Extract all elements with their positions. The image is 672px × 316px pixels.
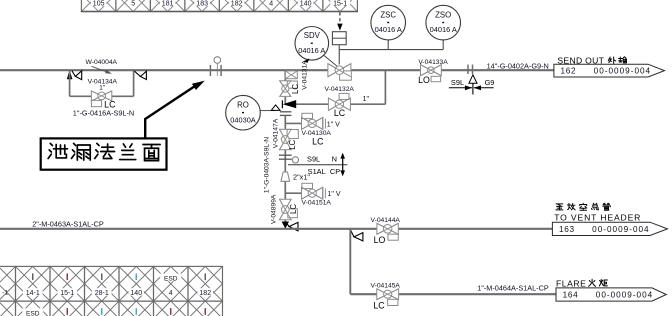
svg-text:V-04131A: V-04131A (301, 60, 308, 90)
svg-text:182: 182 (231, 0, 243, 7)
shutdown valve V-04131A (SDV-04016) (328, 64, 351, 77)
vent valve V-04130A (302, 117, 323, 129)
svg-text:00-0009-004: 00-0009-004 (596, 291, 653, 300)
svg-text:04016 A: 04016 A (375, 25, 402, 34)
off-page arrow 162 send out (554, 64, 665, 77)
svg-text:00-0009-004: 00-0009-004 (592, 225, 649, 234)
main pipe line (14in send out) (0, 69, 554, 71)
svg-text:15-1: 15-1 (333, 0, 347, 7)
connector grid r1c2 14-1 (16, 266, 51, 301)
leader RO to orifice flange (260, 110, 275, 112)
drain circle (292, 157, 298, 163)
vent end flanges of V-04130A (322, 119, 324, 129)
gate valve V-04144A (LO) (377, 223, 398, 234)
svg-text:1"-G-0416A-S9L-N: 1"-G-0416A-S9L-N (73, 108, 134, 117)
svg-text:LC: LC (288, 139, 297, 149)
spec break line S9L/S1AL (288, 164, 347, 166)
label 至放空总管 (to vent header) (556, 204, 563, 210)
position switch ZSO 04016 A (426, 5, 461, 40)
svg-text:LC: LC (312, 136, 324, 146)
off-page arrow 163 vent header (552, 222, 667, 235)
svg-text:183: 183 (196, 0, 208, 7)
flag symbol right of bypass (134, 71, 140, 77)
svg-text:00-0009-004: 00-0009-004 (594, 67, 651, 76)
leak flange vent stem (216, 63, 218, 76)
svg-text:LC: LC (334, 108, 346, 118)
svg-text:140: 140 (130, 290, 142, 297)
svg-text:LC: LC (373, 301, 385, 311)
svg-text:-1: -1 (2, 290, 8, 297)
bypass loop left leg (69, 70, 71, 96)
gate valve V-04145A (LC) (377, 289, 399, 300)
gate valve V-04133A (LO) (421, 65, 442, 76)
hand valve V-04147A (vertical) (280, 129, 292, 149)
svg-text:ESD: ESD (26, 310, 40, 316)
connector grid r2c6 (154, 301, 189, 316)
shutdown valve tag SDV 04016 A (295, 27, 329, 61)
off-page arrow 164 flare (556, 288, 666, 301)
vent valve V-04151A (302, 187, 323, 199)
2in header pipe (0, 228, 554, 230)
callout box (leak flange face) (41, 138, 167, 169)
off-page connector cell 4 (top row) (254, 0, 289, 12)
svg-text:ZSO: ZSO (435, 10, 451, 19)
flare pipe (350, 293, 556, 295)
connector grid r2c4 (85, 301, 120, 316)
flow arrow up into main line (67, 70, 73, 79)
connector grid r1c3 15-1 (50, 266, 85, 301)
bypass loop right leg (133, 70, 135, 96)
svg-text:1"-G-0403A-S9L-N: 1"-G-0403A-S9L-N (263, 137, 270, 193)
position switch ZSC 04016 A (371, 5, 406, 40)
1in bypass pipe (lower) (285, 103, 385, 105)
leader W-04004A to main line (92, 66, 107, 72)
flow arrow down into header (282, 222, 289, 229)
svg-text:4: 4 (169, 290, 173, 297)
spec break double arrow (342, 157, 344, 173)
svg-text:1" V: 1" V (327, 122, 340, 129)
ZSC drop line (387, 40, 389, 50)
svg-text:CP: CP (330, 167, 340, 176)
svg-text:04030A: 04030A (230, 115, 256, 124)
connector grid r2c7 (188, 301, 223, 316)
svg-text:04016 A: 04016 A (298, 46, 325, 55)
svg-text:V-04133A: V-04133A (418, 59, 448, 66)
off-page connector cell 181 (top row) (150, 0, 185, 12)
svg-text:ZSC: ZSC (380, 10, 396, 19)
1in bypass riser (384, 70, 386, 104)
branch pipe to V-04151A (285, 192, 301, 194)
closed gate symbol (box with X) (285, 71, 297, 79)
ZSO drop line (442, 40, 444, 50)
off-page connector cell 182 (top row) (219, 0, 254, 12)
svg-text:1": 1" (99, 85, 106, 92)
vent header drop to flare line (349, 229, 351, 294)
reducer 2x1 (281, 172, 290, 181)
svg-text:S9L: S9L (307, 155, 320, 164)
bypass loop bottom pipe (70, 95, 134, 97)
svg-text:S1AL: S1AL (308, 167, 326, 176)
S9L side underline+arrow (449, 87, 472, 89)
connector grid r2c5 (119, 301, 154, 316)
SDV valve actuator (piston) (332, 32, 346, 45)
leak flange pair (209, 65, 211, 76)
off-page connector cell 105 (top row) (81, 0, 116, 12)
label 火炬 (flare) (589, 279, 596, 286)
off-page connector cell 15-1 (top row) (323, 0, 358, 12)
svg-text:140: 140 (300, 0, 312, 7)
connector grid r2c2 (16, 301, 51, 316)
spec break triangle at send-out (469, 75, 477, 84)
callout leader arrow to leak flange (145, 84, 197, 138)
connector grid r1c6 4 (154, 266, 189, 301)
vertical pipe drop from main line (284, 70, 286, 104)
svg-text:15-1: 15-1 (60, 290, 74, 297)
svg-text:2"-M-0463A-S1AL-CP: 2"-M-0463A-S1AL-CP (32, 219, 104, 228)
branch pipe to V-04130A (285, 122, 301, 124)
svg-text:V-04144A: V-04144A (371, 217, 401, 224)
svg-text:164: 164 (563, 291, 579, 300)
actuator stem (338, 45, 340, 65)
svg-text:V-04132A: V-04132A (325, 86, 355, 93)
svg-text:1": 1" (363, 96, 370, 103)
svg-text:14"-G-0402A-G9-N: 14"-G-0402A-G9-N (487, 62, 549, 71)
spec break flange pair (279, 154, 292, 156)
connector grid r2c1 (0, 301, 16, 316)
svg-text:LC: LC (289, 204, 298, 214)
svg-text:04016 A: 04016 A (430, 25, 457, 34)
svg-text:FLARE: FLARE (556, 279, 586, 289)
svg-text:N: N (332, 155, 337, 164)
svg-text:163: 163 (559, 225, 575, 234)
flag symbol left of bypass (72, 71, 75, 77)
vent end flanges of V-04151A (322, 188, 324, 198)
svg-text:SDV: SDV (304, 31, 321, 40)
svg-text:28-1: 28-1 (95, 290, 109, 297)
svg-text:5: 5 (131, 0, 135, 7)
svg-text:LC: LC (291, 84, 300, 94)
svg-text:V-04899A: V-04899A (271, 194, 278, 224)
svg-text:LO: LO (418, 75, 430, 85)
svg-text:G9: G9 (485, 78, 495, 87)
label 外输 (send out) (608, 57, 616, 63)
svg-text:4: 4 (269, 0, 273, 7)
svg-text:V-04147A: V-04147A (273, 118, 280, 148)
bypass globe valve V-04134A (91, 91, 111, 101)
check arrow on 1in bypass (281, 100, 283, 108)
svg-text:LO: LO (374, 235, 386, 245)
connector grid r1c7 182 (188, 266, 223, 301)
svg-text:1"-M-0464A-S1AL-CP: 1"-M-0464A-S1AL-CP (477, 283, 549, 292)
svg-text:182: 182 (199, 290, 211, 297)
svg-text:V-04145A: V-04145A (371, 282, 401, 289)
flag at vent branch (350, 230, 354, 237)
svg-text:105: 105 (93, 0, 105, 7)
bypass globe valve V-04132A (328, 98, 350, 110)
svg-text:1" V: 1" V (328, 191, 341, 198)
connector grid r1c5 140 (119, 266, 154, 301)
svg-text:RO: RO (237, 101, 249, 110)
svg-text:V-04151A: V-04151A (302, 199, 332, 206)
send-out flange pair (467, 65, 469, 75)
connector grid r1c4 28-1 (85, 266, 120, 301)
flag at drain tie-in (286, 222, 289, 226)
off-page connector cell 183 (top row) (185, 0, 220, 12)
signal line actuator to ZSC/ZSO (339, 49, 443, 51)
vertical 1in drain pipe (284, 115, 286, 221)
orifice flange pair (280, 111, 292, 113)
restriction orifice tag RO 04030A (226, 95, 261, 130)
svg-text:ESD: ESD (164, 276, 178, 283)
svg-text:2"x1": 2"x1" (293, 173, 310, 182)
top row bottom edge emphasis (81, 11, 358, 13)
svg-text:TO VENT HEADER: TO VENT HEADER (554, 212, 641, 222)
G9 side underline+arrow (474, 87, 494, 89)
svg-text:W-04004A: W-04004A (86, 59, 118, 66)
vertical hand valve (LC) below main line (280, 81, 291, 97)
connector grid r1c1 4-1 (0, 266, 16, 301)
svg-text:14-1: 14-1 (26, 290, 40, 297)
connector grid r2c3 (50, 301, 85, 316)
callout text 泄漏法兰面 (leak flange face) (48, 143, 67, 158)
hand valve V-04899A (vertical) (280, 199, 292, 219)
svg-text:181: 181 (162, 0, 174, 7)
svg-text:S9L: S9L (451, 78, 464, 87)
leak flange vent circle (214, 57, 221, 64)
off-page connector cell 5 (top row) (116, 0, 150, 12)
ESD signal dashed line from connector 15-1 to SDV-04016 actuator (339, 12, 341, 23)
svg-text:162: 162 (561, 67, 577, 76)
off-page connector cell 140 (top row) (288, 0, 323, 12)
leader SDV circle to valve V-04131A (324, 56, 337, 67)
